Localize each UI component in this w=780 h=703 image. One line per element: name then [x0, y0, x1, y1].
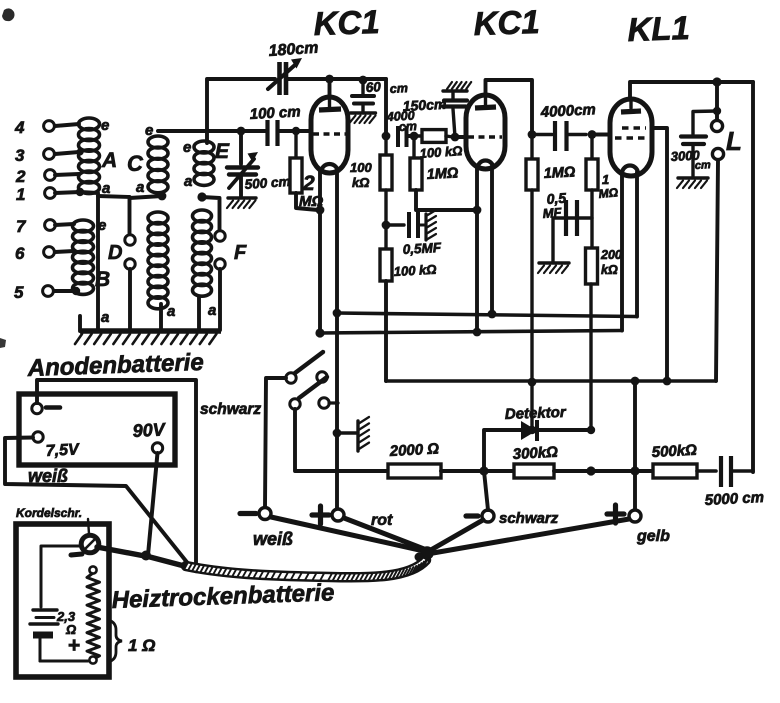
wire 1M to 200k — [590, 190, 593, 248]
svg-text:a: a — [184, 173, 192, 190]
wire terminal 5 to coil B — [54, 287, 80, 295]
svg-text:E: E — [215, 140, 230, 163]
label F — [234, 242, 247, 264]
capacitor 0,5MF (cathode bypass) — [386, 212, 425, 238]
wire switch pole 1 to weiss terminal — [265, 378, 286, 507]
capacitor 60cm — [352, 80, 374, 112]
label a (coil C bottom) — [167, 303, 175, 320]
coil B — [73, 220, 94, 294]
scan speck left edge — [0, 338, 6, 348]
label L — [726, 126, 742, 156]
wire weiss terminal cable — [271, 517, 424, 551]
node 60cm branch — [359, 76, 368, 85]
node V2 left lead on bus 2 — [473, 328, 482, 337]
capacitor 180cm (variable) — [268, 58, 302, 95]
svg-text:cm: cm — [389, 81, 408, 96]
label 500 cm — [244, 174, 291, 192]
switch pole 1 blade — [295, 352, 323, 373]
svg-text:schwarz: schwarz — [499, 510, 559, 527]
label 7,5V — [45, 441, 80, 460]
wire 4000cm to 1M node — [407, 134, 414, 138]
resistor 100kohm (grid stopper, horizontal) — [414, 130, 453, 143]
svg-text:kΩ: kΩ — [352, 175, 369, 190]
resistor 1Mohm (V3 grid) — [586, 135, 598, 191]
wire coil F bottom to ground bar — [197, 297, 201, 331]
label 2000 Ω — [388, 440, 439, 460]
svg-text:weiß: weiß — [253, 529, 293, 549]
capacitor 4000cm (coupling V2-V3) — [532, 121, 586, 151]
node loudspeaker branch — [712, 77, 721, 86]
svg-text:Detektor: Detektor — [505, 404, 568, 423]
node V1 top cap — [325, 75, 334, 84]
capacitor 150cm — [443, 92, 467, 137]
wire terminal 1 to coil A — [55, 188, 84, 196]
label Anodenbatterie — [26, 349, 204, 382]
wire HT bus 90V — [386, 379, 716, 383]
ground (below 3000cm) — [677, 178, 708, 188]
terminal 4 — [14, 118, 54, 137]
svg-text:180cm: 180cm — [268, 40, 319, 60]
ground (below 500cm) — [227, 198, 256, 208]
svg-text:+: + — [68, 634, 80, 657]
wire V3 screen side exit — [652, 128, 667, 381]
svg-text:150cm: 150cm — [402, 96, 446, 114]
label E — [215, 140, 230, 163]
terminal 5 — [14, 283, 53, 302]
switch pole 1 contacts — [286, 372, 327, 383]
node V2 right lead on bus 1 — [488, 310, 497, 319]
tube V3 anode bar — [621, 100, 641, 112]
node V3 grid node — [588, 130, 597, 139]
tube V2 anode bar — [475, 96, 496, 108]
wire gelb terminal to HT bus — [633, 381, 637, 511]
label gelb — [636, 528, 670, 545]
node anode chain / HT bus — [528, 378, 537, 387]
svg-text:5000 cm: 5000 cm — [704, 489, 764, 509]
wire coil A bottom to ground bar — [80, 192, 98, 330]
label C — [127, 151, 144, 176]
svg-text:KC1: KC1 — [313, 3, 380, 42]
svg-text:1MΩ: 1MΩ — [426, 165, 459, 183]
wire switch pole 2 to resistor row — [295, 409, 388, 471]
wire node to V2 grid — [455, 135, 467, 139]
svg-text:300kΩ: 300kΩ — [512, 444, 558, 463]
svg-text:7: 7 — [16, 217, 27, 236]
label 2,3 Ω — [56, 609, 76, 637]
resistor 2Mohm — [290, 131, 318, 210]
wire detector branch — [484, 430, 591, 471]
label Kordelschr. — [16, 506, 82, 520]
chassis hatch (V1 filament tap) — [337, 417, 369, 451]
wire top rail left segment — [207, 79, 275, 143]
svg-text:100: 100 — [350, 160, 372, 175]
label 150cm — [402, 96, 446, 114]
svg-text:90V: 90V — [132, 419, 167, 441]
coil F socket upper contact — [215, 231, 225, 241]
wire anode rail to L terminal — [715, 82, 719, 120]
label 300kΩ — [512, 444, 558, 463]
wire coil C tap to coil D socket — [130, 196, 163, 198]
label 180cm — [268, 40, 319, 60]
label 4000 cm (small) — [385, 109, 417, 134]
label a (coil A bottom) — [102, 180, 110, 197]
wire V1 cathode-left lead to filament bus — [318, 169, 322, 333]
wire 7,5V to weiss wire — [5, 438, 190, 567]
coil A — [79, 118, 100, 194]
label 100 kΩ (lower) — [393, 262, 436, 279]
resistor 1 ohm (rheostat zigzag) — [87, 566, 100, 663]
scan speck top-left — [2, 8, 15, 21]
svg-text:4: 4 — [14, 118, 25, 137]
node 150cm branch — [451, 133, 460, 142]
node gelb branch on HT bus — [631, 377, 640, 386]
wire V2 anode chain down to detector — [530, 190, 533, 429]
capacitor 0,5MF (AF coupling) — [566, 200, 592, 236]
label 60 cm — [365, 79, 408, 96]
label e (coil C top) — [145, 122, 153, 139]
wire node to 100cm capacitor — [241, 129, 266, 133]
tube V1 cathode — [321, 164, 338, 173]
tube V2 cathode — [478, 161, 494, 169]
wire terminal 4 to coil A — [55, 124, 79, 126]
label schwarz (terminal) — [499, 510, 559, 527]
cable bundle (hatched) — [184, 558, 429, 582]
wire terminal 6 to coil B — [55, 251, 74, 252]
terminal L upper — [711, 120, 722, 131]
svg-text:1MΩ: 1MΩ — [543, 164, 576, 182]
ground (below 0,5MF) — [538, 263, 569, 273]
tube V3 cathode — [622, 166, 638, 174]
wire schwarz terminal cable — [429, 520, 483, 551]
label A — [101, 149, 117, 172]
wire terminal 2 to coil A — [55, 174, 79, 175]
wire coil A junction to coil D socket — [98, 196, 130, 234]
svg-text:2000 Ω: 2000 Ω — [388, 440, 439, 460]
wire V3 right lead to filament bus 1 — [635, 172, 639, 317]
svg-text:cm: cm — [695, 159, 712, 172]
resistor 100kohm (screen feed upper) — [380, 136, 392, 190]
node cable knot — [415, 546, 434, 561]
terminal anode minus — [32, 403, 60, 413]
tube V1 grid (dashed) — [313, 132, 346, 135]
svg-text:a: a — [101, 309, 109, 326]
chassis ground bar — [75, 331, 221, 344]
capacitor 100cm — [268, 120, 278, 146]
switch pole 2 contacts — [290, 398, 329, 409]
label 3000 cm — [670, 147, 711, 172]
connector Kordelschnur — [71, 519, 99, 555]
label e (coil E top) — [183, 139, 191, 156]
label schwarz (wire) — [200, 401, 261, 418]
svg-text:schwarz: schwarz — [200, 401, 261, 418]
tube V1 anode bar — [319, 98, 341, 110]
label 200 kΩ — [600, 248, 622, 277]
svg-text:500 cm: 500 cm — [244, 174, 291, 192]
label Detektor — [505, 404, 568, 423]
tube V3 grid 1 (dashed) — [622, 126, 646, 130]
wire battery bottom loop — [40, 660, 88, 663]
svg-text:a: a — [136, 179, 144, 196]
svg-text:weiß: weiß — [28, 466, 68, 486]
svg-text:500kΩ: 500kΩ — [651, 442, 697, 461]
label KC1 (tube V1) — [313, 3, 380, 42]
label 100 kΩ (upper) — [350, 160, 372, 190]
wire far right vertical (anode rail to 5000cm) — [751, 82, 755, 472]
label 1 MΩ (V3 grid) — [598, 172, 619, 201]
tube V2 grid (dashed) — [468, 135, 502, 138]
coil D socket lower contact — [125, 259, 135, 269]
node 3000cm branch — [713, 107, 721, 115]
svg-text:kΩ: kΩ — [601, 263, 618, 277]
terminal 6 — [15, 244, 54, 263]
node V1 right lead / chassis tap — [333, 429, 342, 438]
node V2 cathode / grid leak — [473, 206, 482, 215]
label + (battery) — [68, 634, 80, 657]
wire connector to cable bundle — [97, 547, 188, 567]
label 100 cm — [249, 103, 301, 123]
brace for 1 ohm — [108, 620, 122, 662]
label weiß (wire) — [28, 466, 68, 486]
svg-text:rot: rot — [371, 512, 393, 529]
terminal weiss (-) — [240, 508, 271, 520]
tube V2 KC1 envelope — [466, 95, 505, 169]
node 4000cm branch (V2 grid chain) — [382, 132, 391, 141]
node detector right junction — [586, 466, 595, 475]
wire 100cm capacitor to grid of V1 — [278, 129, 313, 133]
wire L lower terminal to HT bus — [716, 160, 718, 381]
capacitor 5000cm — [697, 456, 753, 487]
wire coil E junction to coil F socket — [202, 197, 220, 231]
resistor 500kohm — [653, 464, 697, 478]
wire coil C top lead — [158, 129, 159, 133]
label rot — [371, 512, 393, 529]
battery cell plates — [30, 610, 58, 661]
svg-text:B: B — [95, 268, 110, 291]
tube V3 grid 2 (dashed) — [615, 136, 647, 140]
wire V2 anode over the top — [486, 80, 533, 135]
svg-text:1: 1 — [16, 185, 25, 204]
wire terminal 7 to coil B — [55, 224, 74, 225]
terminal 7,5V — [33, 432, 43, 442]
resistor 100kohm (lower) — [380, 249, 392, 281]
wire 200k down to detector junction — [589, 284, 592, 429]
wire rail to V1 top cap — [328, 79, 332, 99]
svg-text:60: 60 — [365, 79, 381, 95]
label weiß (terminal) — [253, 529, 293, 549]
node 2M ohm tap — [292, 127, 300, 135]
label 5000 cm — [704, 489, 764, 509]
wire V1 right lead down to rot terminal — [335, 169, 339, 511]
terminal schwarz (-) — [466, 510, 494, 522]
svg-text:e: e — [101, 117, 109, 134]
wire V2 right lead to filament bus 1 — [490, 166, 494, 314]
wire 2000ohm to 300kohm — [441, 469, 514, 473]
terminal 7 — [16, 217, 55, 236]
terminal 90V — [152, 443, 162, 453]
svg-text:6: 6 — [15, 244, 25, 263]
node 500cm branch — [237, 127, 246, 136]
wire top rail right segment — [288, 77, 386, 81]
coil D socket upper contact — [125, 235, 135, 245]
svg-text:F: F — [234, 242, 247, 264]
wire 0,5MF to ground — [553, 218, 566, 262]
label 1MΩ (anode load) — [543, 164, 576, 182]
label 1 Ω — [128, 636, 155, 655]
node detector / anode chain — [528, 426, 536, 434]
svg-text:200: 200 — [600, 248, 622, 262]
svg-text:e: e — [183, 139, 191, 156]
svg-text:e: e — [98, 217, 106, 234]
svg-text:e: e — [145, 122, 153, 139]
label 500kΩ — [651, 442, 697, 461]
svg-text:D: D — [108, 242, 122, 264]
wire V2 left lead to filament bus 2 — [475, 166, 479, 332]
svg-text:C: C — [127, 151, 144, 176]
switch pole 2 blade — [299, 377, 327, 398]
wire schwarz terminal up to detector node — [484, 471, 488, 510]
resistor 2000 ohm — [388, 464, 441, 478]
wire coil B bottom to ground bar — [78, 316, 82, 331]
wire connector to battery — [41, 546, 81, 607]
wire coil F lower contact to ground bar — [218, 269, 222, 330]
svg-text:5: 5 — [14, 283, 24, 302]
label 2 MΩ — [299, 172, 323, 210]
svg-text:2: 2 — [15, 167, 26, 186]
wire gelb terminal cable — [433, 519, 629, 553]
label 0,5MF — [402, 240, 442, 257]
svg-text:Kordelschr.: Kordelschr. — [16, 506, 82, 520]
chassis hatch (0,5MF) — [426, 210, 436, 240]
resistor 1Mohm (V2 grid leak) — [410, 136, 475, 210]
wire 90V to cable bundle — [148, 453, 158, 555]
terminal 2 — [15, 167, 55, 186]
resistor 200kohm — [586, 248, 598, 284]
wire terminal 3 to coil A — [55, 148, 84, 155]
label B — [95, 268, 110, 291]
coil C lower half — [148, 212, 168, 309]
svg-text:a: a — [167, 303, 175, 320]
tube V1 KC1 envelope — [311, 97, 348, 173]
label a (coil F bottom) — [208, 302, 216, 319]
svg-text:L: L — [726, 126, 742, 156]
wire filament bus 1 — [337, 313, 637, 317]
label 90V — [132, 419, 167, 441]
label 0,5 MF — [542, 190, 567, 221]
label 100 kΩ (grid stopper) — [419, 143, 463, 161]
wire switch pole 2 right stub — [329, 401, 338, 404]
svg-text:KC1: KC1 — [473, 3, 540, 42]
svg-text:100 kΩ: 100 kΩ — [393, 262, 436, 279]
wire 300kohm to 500kohm — [554, 469, 653, 473]
ground (above 150cm, inverted) — [443, 82, 471, 91]
svg-text:100 cm: 100 cm — [249, 103, 301, 123]
svg-text:1 Ω: 1 Ω — [128, 636, 155, 655]
label Heiztrockenbatterie — [111, 579, 335, 614]
node coil C tap — [158, 192, 167, 201]
label D — [108, 242, 122, 264]
label a (coil C tap) — [136, 179, 144, 196]
capacitor 3000cm — [681, 111, 717, 176]
svg-text:100 kΩ: 100 kΩ — [419, 143, 463, 161]
terminal 1 — [16, 185, 55, 204]
label KL1 (tube V3) — [627, 9, 691, 48]
svg-text:1: 1 — [602, 172, 609, 187]
label a (coil B bottom) — [101, 309, 109, 326]
svg-text:a: a — [208, 302, 216, 319]
svg-text:4000cm: 4000cm — [539, 101, 596, 121]
node detector / 200k junction — [587, 426, 595, 434]
terminal 3 — [15, 146, 54, 165]
label e (coil B top) — [98, 217, 106, 234]
svg-text:3: 3 — [15, 146, 25, 165]
node V1 left lead / 2Mohm — [316, 206, 325, 215]
wire rail corner down to 100k chain — [384, 79, 388, 136]
wire grid node to V3 — [592, 133, 611, 137]
wire V3 left lead to filament bus 2 — [620, 172, 624, 331]
capacitor 4000cm (coupling V1-V2) — [398, 126, 407, 147]
node screen branch on HT bus — [663, 377, 672, 386]
label e (coil A top) — [101, 117, 109, 134]
svg-text:0,5MF: 0,5MF — [402, 240, 442, 257]
diode Detektor — [521, 420, 537, 441]
battery Heiztrockenbatterie box — [16, 524, 109, 677]
tube V3 KL1 envelope — [610, 99, 652, 176]
coil E — [194, 141, 214, 185]
battery Anodenbatterie box — [19, 394, 175, 465]
svg-text:2: 2 — [302, 172, 315, 195]
resistor 1Mohm (V2 anode load) — [526, 135, 538, 191]
label 1MΩ (V2 grid leak) — [426, 165, 459, 183]
node coil E bottom junction — [197, 192, 206, 201]
coil C upper half — [148, 136, 168, 193]
coil F winding — [193, 210, 212, 296]
svg-text:A: A — [101, 149, 117, 172]
svg-text:7,5V: 7,5V — [45, 441, 80, 460]
svg-text:MΩ: MΩ — [598, 185, 619, 201]
wire 100k chain to HT bus — [384, 281, 388, 381]
svg-text:gelb: gelb — [636, 528, 670, 545]
node V1 left lead on bus 2 — [315, 328, 324, 337]
wire V3 anode over the top — [630, 82, 753, 99]
wire anode minus to schwarz drop — [37, 380, 196, 569]
node schwarz wire / bundle — [192, 565, 200, 573]
terminal gelb (+) — [607, 505, 641, 523]
capacitor 500cm (variable) — [227, 131, 258, 196]
node V3 grid coupling branch — [528, 130, 537, 139]
wire coil D lower contact to ground bar — [128, 269, 132, 331]
node V1 right lead / filament bus 1 — [333, 309, 342, 318]
svg-text:KL1: KL1 — [627, 9, 691, 48]
wire filament bus 2 — [320, 331, 622, 334]
wire rot terminal cable — [344, 518, 424, 549]
wire 100k upper to lower — [384, 190, 387, 249]
label a (coil E bottom) — [184, 173, 192, 190]
node 1Mohm grid leak tap — [410, 132, 419, 141]
label 4000cm — [539, 101, 596, 121]
label KC1 (tube V2) — [473, 3, 540, 42]
terminal L lower — [712, 148, 723, 159]
node detector left junction — [479, 466, 488, 475]
resistor 300kohm — [514, 464, 554, 478]
wire coil C top to grid chain — [158, 129, 241, 133]
ground (below 60cm) — [350, 113, 376, 123]
terminal rot (+) — [312, 506, 344, 524]
node 0,5MF branch — [382, 221, 391, 230]
coil F socket lower contact — [215, 259, 225, 269]
node gelb junction — [630, 466, 639, 475]
wire coil C bottom to ground bar — [159, 304, 163, 331]
